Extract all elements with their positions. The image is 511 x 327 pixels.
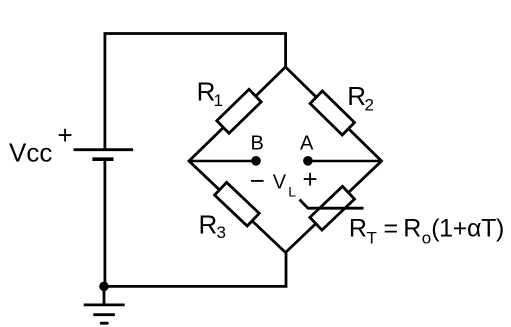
resistor R1 body xyxy=(217,89,261,133)
svg-text:(1+αT): (1+αT) xyxy=(431,215,504,243)
svg-text:1: 1 xyxy=(214,91,223,110)
wire: left vertex to node B xyxy=(189,160,256,163)
wire top: battery top to diamond top vertex xyxy=(105,34,286,151)
svg-text:T: T xyxy=(367,229,377,248)
wire bottom: junction to diamond bottom vertex xyxy=(104,253,286,287)
bridge diamond wires xyxy=(189,67,382,253)
svg-text:R: R xyxy=(199,210,218,240)
svg-text:R: R xyxy=(347,81,366,111)
svg-text:Vcc: Vcc xyxy=(9,137,52,167)
svg-text:A: A xyxy=(300,133,314,155)
battery V1 short plate xyxy=(92,157,113,161)
svg-text:=: = xyxy=(384,214,399,242)
svg-text:2: 2 xyxy=(365,95,374,114)
svg-text:B: B xyxy=(251,133,264,155)
wire: node A to right vertex xyxy=(308,160,382,163)
svg-text:L: L xyxy=(288,184,296,200)
svg-text:R: R xyxy=(349,215,367,243)
svg-text:−: − xyxy=(250,165,265,195)
battery V1 long plate xyxy=(74,148,134,151)
junction node dot xyxy=(99,282,109,292)
svg-text:R: R xyxy=(403,215,421,243)
node A dot xyxy=(303,156,313,166)
ground bar 3 xyxy=(101,322,107,325)
ground stem xyxy=(103,286,106,305)
resistor R2 body xyxy=(310,91,354,135)
wire: battery bottom to ground junction xyxy=(104,161,107,287)
node B dot xyxy=(251,156,261,166)
svg-text:V: V xyxy=(273,172,287,194)
ground bar 2 xyxy=(93,313,115,316)
ground bar 1 xyxy=(84,303,125,306)
thermistor RT body xyxy=(310,186,355,230)
svg-text:o: o xyxy=(422,229,431,248)
svg-text:+: + xyxy=(58,120,73,150)
resistor R3 body xyxy=(215,182,260,226)
thermistor RT strike line xyxy=(300,200,364,209)
svg-text:3: 3 xyxy=(217,223,226,242)
svg-text:+: + xyxy=(303,164,318,194)
